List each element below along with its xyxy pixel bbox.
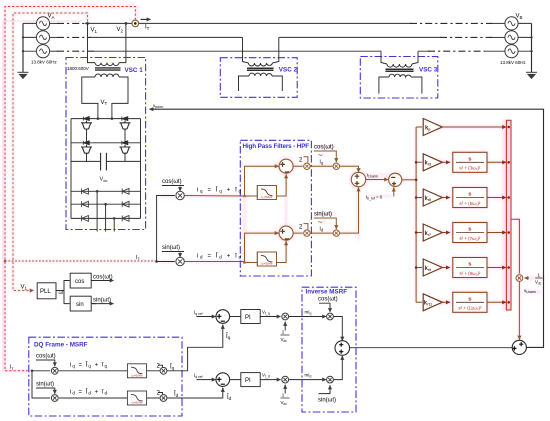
svg-text:IT: IT: [136, 255, 141, 261]
svg-text:~: ~: [318, 151, 323, 160]
svg-text:Vdc: Vdc: [100, 177, 108, 183]
svg-text:cos: cos: [75, 279, 84, 285]
svg-text:s² + (11ω₀)²: s² + (11ω₀)²: [458, 306, 482, 311]
svg-text:sin(ωt): sin(ωt): [314, 212, 332, 218]
svg-text:cos(ωt): cos(ωt): [93, 275, 113, 281]
svg-text:~: ~: [318, 217, 323, 226]
svg-text:VSC 3: VSC 3: [419, 66, 438, 73]
svg-text:sin(ωt): sin(ωt): [93, 298, 111, 304]
svg-text:ωt: ωt: [59, 290, 65, 295]
svg-text:Inverse MSRF: Inverse MSRF: [306, 289, 348, 296]
svg-text:s² + (3ω₀)²: s² + (3ω₀)²: [459, 166, 480, 171]
svg-text:VSC 1: VSC 1: [125, 67, 144, 74]
svg-text:s: s: [468, 227, 471, 233]
svg-text:V1: V1: [91, 28, 98, 34]
svg-text:cos(ωt): cos(ωt): [162, 179, 182, 185]
svg-text:13.8kV 60Hz: 13.8kV 60Hz: [31, 60, 58, 65]
svg-text:13.8kV 60Hz: 13.8kV 60Hz: [500, 60, 527, 65]
svg-text:s: s: [468, 262, 471, 268]
svg-text:s: s: [468, 296, 471, 302]
svg-text:VB: VB: [516, 14, 523, 20]
svg-text:1800:600V: 1800:600V: [67, 66, 89, 71]
svg-text:s: s: [468, 192, 471, 198]
svg-text:cos(ωt): cos(ωt): [36, 354, 56, 360]
svg-text:IT: IT: [145, 25, 150, 31]
svg-text:s² + (7ω₀)²: s² + (7ω₀)²: [459, 236, 480, 241]
svg-text:VSC 2: VSC 2: [279, 66, 298, 73]
svg-text:sin(ωt): sin(ωt): [162, 245, 180, 251]
svg-text:IT: IT: [10, 365, 15, 371]
svg-text:High Pass Filters - HPF: High Pass Filters - HPF: [243, 143, 310, 150]
svg-text:V2: V2: [117, 27, 124, 33]
svg-text:VT: VT: [101, 100, 108, 106]
svg-text:cos(ωt): cos(ωt): [318, 297, 338, 303]
svg-text:PI: PI: [245, 378, 251, 384]
svg-text:sin: sin: [76, 302, 84, 308]
svg-text:sin(ωt): sin(ωt): [318, 398, 336, 404]
svg-text:DQ Frame - MSRF: DQ Frame - MSRF: [34, 342, 88, 349]
svg-text:s² + (5ω₀)²: s² + (5ω₀)²: [459, 201, 480, 206]
svg-text:sin(ωt): sin(ωt): [36, 382, 54, 388]
svg-text:PLL: PLL: [40, 289, 51, 295]
svg-text:s: s: [468, 156, 471, 162]
svg-text:cos(ωt): cos(ωt): [314, 145, 334, 151]
svg-text:PI: PI: [245, 315, 251, 321]
svg-text:VA: VA: [48, 14, 55, 20]
svg-text:s² + (9ω₀)²: s² + (9ω₀)²: [459, 271, 480, 276]
svg-text:V1: V1: [21, 285, 28, 291]
